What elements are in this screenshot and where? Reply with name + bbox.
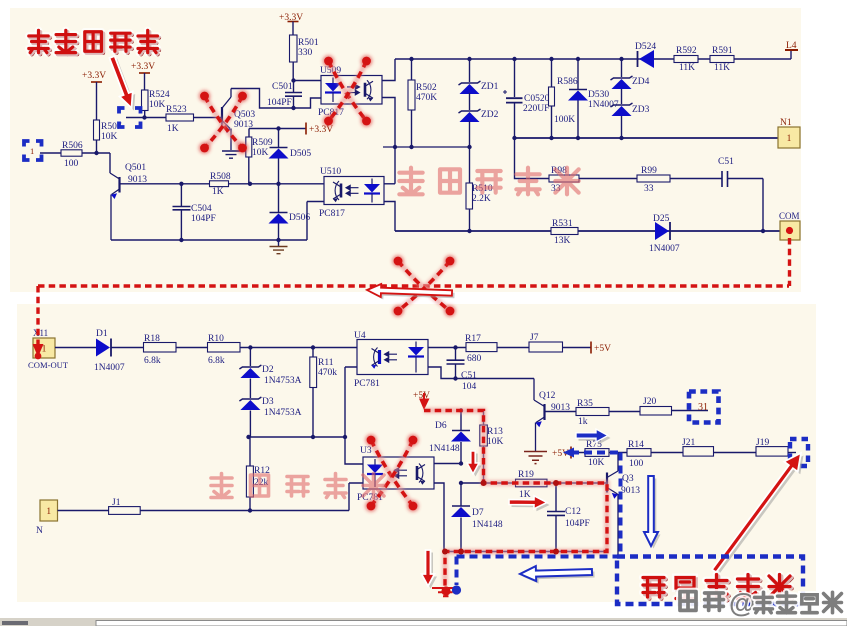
red path +5V arrow — [413, 391, 430, 401]
svg-text:R17: R17 — [465, 334, 481, 344]
red annotation text send-low-level — [29, 30, 159, 54]
blue selection box top-left connector — [24, 141, 42, 160]
svg-text:9013: 9013 — [621, 486, 640, 496]
svg-text:R18: R18 — [144, 334, 160, 344]
optocoupler U4 — [357, 340, 428, 375]
jumper J1 — [58, 510, 109, 512]
resistor R510 — [466, 183, 473, 209]
resistor R592 — [674, 56, 698, 63]
svg-text:470K: 470K — [416, 93, 437, 103]
port COM — [780, 221, 800, 240]
svg-text:C51: C51 — [461, 371, 477, 381]
svg-text:R13: R13 — [487, 427, 503, 437]
svg-text:R502: R502 — [416, 83, 437, 93]
svg-text:D25: D25 — [653, 214, 670, 224]
bottom wire y240 — [111, 239, 307, 241]
svg-text:6.8k: 6.8k — [144, 356, 161, 366]
zener ZD3 — [621, 89, 623, 104]
red arrow from text to selection box — [109, 56, 135, 111]
wire R10 to U4 — [240, 347, 357, 349]
svg-text:@: @ — [729, 588, 755, 618]
svg-text:D530: D530 — [588, 90, 609, 100]
svg-text:L4: L4 — [786, 41, 797, 51]
resistor R509 — [248, 129, 250, 138]
red dashed path across sheets — [38, 283, 789, 288]
U4 right top pin wire — [428, 347, 466, 349]
svg-text:R506: R506 — [62, 141, 83, 151]
blue arrow down long — [644, 476, 661, 549]
port N1 — [778, 127, 800, 148]
svg-text:R586: R586 — [557, 77, 578, 87]
svg-text:C12: C12 — [565, 507, 581, 517]
svg-text:+5V: +5V — [594, 344, 611, 354]
U510 left pin wires — [307, 202, 324, 241]
svg-text:R35: R35 — [577, 399, 593, 409]
svg-text:R508: R508 — [210, 172, 231, 182]
svg-text:R592: R592 — [676, 46, 697, 56]
zener D3 — [249, 379, 251, 399]
diode D530 — [577, 59, 579, 89]
svg-text:10K: 10K — [252, 148, 269, 158]
wire J20 to port 31 — [672, 410, 709, 412]
optocoupler U510 — [324, 177, 384, 205]
svg-text:11K: 11K — [714, 63, 730, 73]
svg-text:COM-OUT: COM-OUT — [28, 360, 69, 370]
red arrow down near ground — [422, 550, 438, 589]
svg-text:Q503: Q503 — [234, 110, 255, 120]
svg-text:1N4007: 1N4007 — [94, 363, 125, 373]
resistor R35 — [576, 408, 609, 416]
svg-text:Q501: Q501 — [125, 163, 146, 173]
capacitor C51 top section — [722, 171, 728, 187]
svg-text:104PF: 104PF — [565, 519, 590, 529]
svg-text:C504: C504 — [191, 204, 212, 214]
wire stub into selection box — [126, 117, 145, 119]
svg-text:U3: U3 — [360, 446, 372, 456]
red dashed path COM down — [787, 238, 792, 286]
power +3.3V U509 area — [305, 123, 307, 135]
svg-text:R14: R14 — [628, 440, 644, 450]
svg-text:C0520: C0520 — [524, 94, 550, 104]
resistor R18 — [144, 343, 177, 353]
svg-text:10K: 10K — [149, 100, 166, 110]
power +5V R75 rail — [570, 447, 572, 459]
COM junction red dot — [786, 227, 793, 234]
wire Q503 collector to C501 — [231, 89, 294, 109]
svg-text:Q12: Q12 — [539, 391, 556, 401]
red dashed path down to X11 — [35, 286, 40, 344]
node R501/C501 — [291, 78, 295, 82]
wire bus y147 — [383, 146, 470, 148]
resistor R99 — [637, 175, 670, 182]
wire +3.3V rail y128.5 — [249, 128, 306, 130]
capacitor C501 — [293, 81, 295, 93]
svg-text:R11: R11 — [318, 358, 334, 368]
resistor R506 — [40, 152, 61, 154]
resistor R507 — [94, 120, 100, 140]
red X over U3 — [365, 434, 419, 512]
resistor R591 — [710, 56, 734, 63]
ground under Q503 — [222, 151, 240, 158]
watermark top — [399, 168, 578, 195]
power +3.3V R507 — [82, 71, 106, 81]
svg-text:D1: D1 — [96, 329, 108, 339]
diode D505 — [278, 129, 280, 148]
diode D7 — [460, 483, 462, 506]
svg-text:1: 1 — [46, 507, 51, 517]
svg-text:10K: 10K — [101, 132, 118, 142]
resistor R501 — [290, 35, 298, 62]
transistor Q3 — [607, 453, 618, 557]
resistor R524 — [142, 90, 149, 111]
resistor R98 — [549, 175, 579, 182]
svg-text:100: 100 — [64, 159, 79, 169]
svg-text:R501: R501 — [298, 38, 319, 48]
svg-text:1K: 1K — [167, 124, 179, 134]
red X over Q503 — [199, 90, 249, 154]
resistor R531 — [551, 228, 578, 235]
node C501 bottom — [291, 106, 295, 110]
resistor R508 — [210, 181, 229, 187]
capacitor C51 bottom section — [455, 348, 457, 360]
svg-text:R523: R523 — [166, 105, 187, 115]
ground under Q12 — [524, 452, 547, 464]
svg-text:100: 100 — [629, 459, 644, 469]
blue dashed path bottom left — [457, 557, 621, 586]
U4 left pin wire — [345, 367, 357, 437]
power +3.3V R524 — [131, 62, 155, 72]
wire row y483 — [461, 482, 516, 484]
svg-text:U510: U510 — [320, 167, 341, 177]
wire C0520 to R98 — [515, 138, 550, 179]
resistor R17 — [466, 343, 497, 352]
svg-text:COM: COM — [779, 211, 800, 221]
svg-text:J19: J19 — [756, 438, 769, 448]
svg-text:R509: R509 — [252, 138, 273, 148]
svg-text:10K: 10K — [487, 437, 504, 447]
svg-text:1k: 1k — [578, 417, 588, 427]
resistor R14 — [627, 449, 651, 457]
svg-text:D6: D6 — [435, 421, 447, 431]
blue selection box R523 node — [119, 108, 141, 127]
svg-text:31: 31 — [698, 402, 708, 413]
resistor R13 — [483, 411, 485, 426]
red dashed path bottom section — [424, 411, 607, 587]
diode D524 — [638, 50, 655, 68]
svg-text:680: 680 — [467, 354, 482, 364]
svg-text:1: 1 — [787, 134, 792, 144]
svg-text:R10: R10 — [208, 334, 224, 344]
resistor R586 — [551, 59, 553, 87]
resistor R19 — [516, 479, 548, 487]
svg-text:330: 330 — [298, 48, 313, 58]
svg-text:+3.3V: +3.3V — [82, 71, 106, 81]
svg-text:ZD3: ZD3 — [632, 105, 650, 115]
wire row y437 — [249, 436, 346, 438]
zener ZD2 — [469, 93, 471, 110]
svg-text:D2: D2 — [262, 365, 274, 375]
resistor R502 — [411, 59, 413, 80]
optocoupler U3 — [363, 457, 434, 489]
svg-text:13K: 13K — [554, 236, 571, 246]
wire J1 to U3 — [140, 510, 349, 512]
node R524/R523 — [142, 115, 146, 119]
svg-text:220UF: 220UF — [523, 104, 549, 114]
selection corners at J19 output — [790, 439, 808, 466]
svg-text:104PF: 104PF — [267, 98, 292, 108]
wire Q501 base row y183.8 — [120, 183, 210, 185]
svg-text:R19: R19 — [518, 470, 534, 480]
svg-text:D505: D505 — [290, 149, 311, 159]
diode D1 — [55, 347, 96, 349]
svg-text:U4: U4 — [354, 331, 366, 341]
jumper J21 — [683, 447, 714, 457]
svg-text:+3.3V: +3.3V — [131, 62, 155, 72]
bottom schematic sheet — [17, 304, 816, 602]
power +3.3V R501 — [279, 13, 303, 23]
resistor R523 — [145, 117, 167, 119]
svg-text:1N4007: 1N4007 — [649, 244, 680, 254]
node C504 top — [179, 182, 183, 186]
small red arrow down near R13 — [467, 451, 482, 477]
svg-text:10K: 10K — [588, 458, 605, 468]
svg-text:N: N — [36, 526, 43, 536]
blue dashed receive box — [617, 557, 803, 605]
svg-text:33: 33 — [644, 184, 654, 194]
svg-text:ZD1: ZD1 — [481, 82, 499, 92]
white arrow pointing left middle — [367, 284, 455, 300]
bus junction dots — [409, 57, 413, 61]
svg-text:104: 104 — [462, 382, 477, 392]
red arrowhead into X11 — [33, 344, 44, 359]
svg-text:J21: J21 — [682, 438, 695, 448]
diode D25 — [655, 222, 670, 240]
selection box port 31 — [689, 392, 719, 423]
bottom wire y551 — [445, 551, 607, 553]
U3 right pin wires — [434, 463, 461, 465]
lower bus wire y231 to COM — [395, 230, 780, 232]
svg-text:100K: 100K — [554, 115, 575, 125]
svg-text:N1: N1 — [780, 118, 792, 128]
top schematic sheet — [10, 8, 801, 292]
wire R19 to Q3 base — [547, 482, 607, 484]
blue arrow right above R75 — [576, 429, 611, 445]
diode D506 — [278, 184, 280, 212]
svg-text:1N4753A: 1N4753A — [264, 408, 302, 418]
wire +5V rail to R14 row — [571, 452, 627, 454]
svg-text:D3: D3 — [262, 397, 274, 407]
svg-text:R591: R591 — [712, 46, 733, 56]
svg-text:C51: C51 — [718, 157, 734, 167]
gray watermark headline text — [680, 588, 841, 618]
svg-text:Q3: Q3 — [622, 474, 634, 484]
top power bus wire y59 — [395, 58, 791, 60]
svg-text:ZD2: ZD2 — [481, 110, 499, 120]
blue arrow left long — [520, 566, 595, 584]
wire C501 to U509 pin2 — [294, 98, 322, 108]
svg-text:R531: R531 — [552, 219, 573, 229]
wire to U509 pin1 — [294, 80, 322, 82]
svg-text:ZD4: ZD4 — [632, 77, 650, 87]
svg-text:1N4753A: 1N4753A — [264, 376, 302, 386]
bus wire y138 to N1 — [515, 137, 779, 139]
svg-text:J1: J1 — [112, 498, 121, 508]
jumper J19 — [756, 447, 788, 457]
watermark bottom — [211, 474, 384, 498]
wire ZD2 to R510 — [469, 147, 471, 183]
transistor Q12 — [534, 379, 545, 452]
port N — [40, 500, 58, 521]
svg-text:J20: J20 — [643, 397, 656, 407]
resistor R11 — [312, 348, 314, 358]
U3 left pin wires — [345, 437, 363, 464]
svg-text:104PF: 104PF — [191, 214, 216, 224]
port L4 — [790, 51, 792, 59]
power +5V J7 — [590, 342, 592, 354]
wire Q12 base to R35 — [545, 411, 577, 413]
red X over U509 — [323, 55, 373, 127]
big red arrow to J19 box — [712, 453, 804, 575]
transistor Q503 — [222, 89, 231, 151]
capacitor C12 — [555, 483, 557, 511]
blue dot end — [452, 585, 461, 594]
svg-text:2.2K: 2.2K — [472, 194, 491, 204]
optocoupler U509 — [321, 76, 382, 105]
taskbar strip — [0, 618, 847, 626]
U509 right pin wires — [382, 59, 395, 81]
wire to Q12 collector — [456, 378, 535, 380]
capacitor C0520 — [514, 59, 516, 97]
svg-text:PC817: PC817 — [319, 209, 345, 219]
node R506/R507/Q501 — [94, 151, 98, 155]
jumper J20 — [640, 407, 672, 416]
svg-text:R524: R524 — [149, 90, 170, 100]
transistor Q501 — [109, 153, 111, 173]
zener ZD1 — [469, 59, 471, 82]
red X over wire middle — [392, 255, 456, 317]
svg-text:R99: R99 — [641, 166, 657, 176]
zener ZD4 — [621, 59, 623, 77]
ground under D506 — [278, 240, 280, 246]
svg-text:J7: J7 — [530, 333, 539, 343]
svg-text:C501: C501 — [272, 82, 293, 92]
port X11 COM-OUT — [33, 328, 48, 338]
blue path start arrowhead — [563, 448, 574, 458]
svg-text:1N4148: 1N4148 — [429, 444, 460, 454]
zener D2 — [249, 348, 251, 367]
diode D6 — [460, 411, 462, 431]
blue dashed path rail — [571, 453, 621, 557]
svg-text:470k: 470k — [318, 368, 337, 378]
svg-text:1K: 1K — [212, 187, 224, 197]
red ground symbol — [432, 586, 459, 596]
resistor R10 — [208, 343, 241, 353]
svg-text:PC781: PC781 — [354, 379, 380, 389]
svg-text:6.8k: 6.8k — [208, 356, 225, 366]
resistor R75 — [585, 449, 609, 457]
svg-text:1K: 1K — [519, 490, 531, 500]
capacitor C504 — [180, 184, 182, 206]
U4 bottom right pin wire — [428, 367, 456, 379]
svg-text:1: 1 — [30, 146, 34, 156]
svg-text:1N4148: 1N4148 — [472, 520, 503, 530]
red annotation text receive-low-level — [643, 575, 792, 601]
svg-text:D7: D7 — [472, 508, 484, 518]
resistor R12 — [249, 437, 251, 466]
red junction dots on path — [442, 549, 448, 555]
red arrow right over R19 — [509, 496, 550, 512]
jumper J7 — [529, 342, 563, 352]
U510 right pin wires — [384, 183, 395, 185]
svg-text:11K: 11K — [679, 63, 695, 73]
svg-text:D524: D524 — [635, 42, 656, 52]
